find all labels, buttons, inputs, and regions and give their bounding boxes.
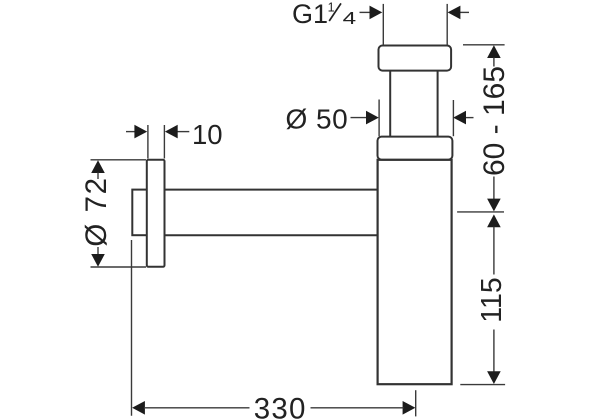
- dim 115: bottom arrow (down): [487, 371, 501, 384]
- dim 330: left extension line: [131, 240, 133, 416]
- dim 10: left arrow: [126, 125, 147, 139]
- dim 60-165: dim line upper segment: [493, 58, 495, 67]
- dim 10: left extension line: [147, 125, 149, 159]
- wall flange (escutcheon): [147, 160, 165, 267]
- svg-text:Ø 50: Ø 50: [286, 103, 349, 134]
- dim diameter 72: top arrow (up): [91, 160, 105, 173]
- dim diameter 72: dim line lower segment: [97, 247, 99, 255]
- dim diameter 72: bottom arrow (down): [91, 254, 105, 267]
- dim G1 1/4: left arrow: [360, 6, 383, 20]
- bottle body of trap: [378, 160, 452, 384]
- dim 60-165: dim line lower segment: [493, 177, 495, 201]
- svg-text:G1: G1: [292, 0, 328, 29]
- svg-text:Ø 72: Ø 72: [80, 176, 113, 246]
- dim diameter 72: bottom extension line: [91, 266, 147, 268]
- svg-text:60 - 165: 60 - 165: [478, 66, 511, 176]
- slip nut on bottle top: [378, 137, 453, 160]
- riser pipe left wall: [389, 70, 391, 137]
- svg-text:10: 10: [192, 119, 223, 150]
- dim G1 1/4: right arrow: [448, 6, 469, 20]
- dim diameter 50: left arrow: [351, 111, 379, 125]
- dim diameter 50: right arrow: [453, 111, 473, 125]
- top nut (G 1 1/4 connector): [379, 46, 452, 71]
- svg-text:115: 115: [476, 277, 508, 322]
- dim label G1 1/4: [292, 0, 356, 29]
- dim diameter 72: top extension line: [91, 159, 147, 161]
- dim 115: dim line upper segment: [493, 227, 495, 275]
- dim 60-165: top arrow (up): [487, 45, 501, 58]
- dim 115: top arrow (up): [487, 214, 501, 227]
- horizontal pipe bottom wall: [163, 234, 379, 236]
- dim diameter 50: right extension line: [452, 100, 454, 136]
- pipe stub through wall (left of flange): [132, 190, 148, 236]
- dim 60-165: top extension line: [463, 44, 505, 46]
- dim 330: left arrow: [132, 401, 249, 415]
- dim 115: dim line lower segment: [493, 330, 495, 372]
- dim diameter 50: left extension line: [378, 100, 380, 137]
- pipe centerline extension line (right): [457, 211, 504, 213]
- dim 60-165: bottom arrow (down): [487, 199, 501, 212]
- horizontal pipe top wall: [163, 189, 379, 191]
- dim 330: right extension line: [415, 390, 417, 416]
- svg-text:330: 330: [254, 393, 307, 420]
- svg-text:4: 4: [343, 8, 357, 28]
- dim diameter 72: dim line upper segment: [97, 173, 99, 180]
- dim 330: right arrow: [311, 401, 416, 415]
- dim 115: bottom extension line: [460, 384, 505, 386]
- dim G1 1/4: left extension line: [382, 4, 384, 45]
- svg-text:1: 1: [328, 1, 335, 15]
- riser pipe right wall: [437, 70, 439, 137]
- dim 10: right arrow: [165, 125, 189, 139]
- dim 10: right extension line: [163, 125, 165, 159]
- dim G1 1/4: right extension line: [446, 4, 448, 45]
